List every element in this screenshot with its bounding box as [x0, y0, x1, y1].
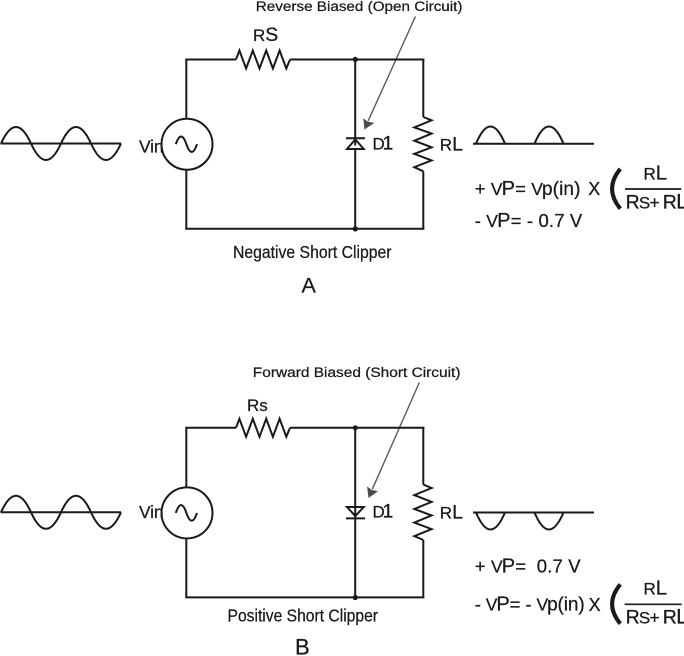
- junction: bottom node (B): [353, 595, 358, 600]
- svg-text:Positive Short Clipper: Positive Short Clipper: [228, 605, 379, 625]
- wire: right branch lower (B): [422, 540, 424, 598]
- svg-text:RL: RL: [644, 162, 668, 185]
- resistor RL (A): [414, 117, 431, 171]
- wire: diode branch lower (A): [354, 149, 356, 229]
- wire: bottom wire (B): [185, 596, 424, 598]
- svg-text:Forward Biased (Short Circuit): Forward Biased (Short Circuit): [253, 365, 461, 380]
- annotation arrow to D1 (B): [367, 382, 419, 498]
- resistor Rs (B): [236, 419, 290, 437]
- wire: left branch top (B): [185, 428, 187, 488]
- svg-text:- VP= - 0.7 V: - VP= - 0.7 V: [475, 210, 583, 232]
- wire: right branch upper (B): [422, 427, 424, 485]
- wire: left branch bottom (A): [185, 170, 187, 229]
- wire: left branch bottom (B): [185, 538, 187, 597]
- output waveform (B): [473, 513, 594, 530]
- wire: top-left segment (A): [185, 59, 236, 61]
- svg-text:+ VP= 0.7 V: + VP= 0.7 V: [475, 555, 582, 577]
- annotation arrow to D1 (A): [363, 17, 415, 130]
- svg-text:RS: RS: [253, 24, 278, 46]
- voltage source Vin (A): [162, 119, 213, 170]
- wire: top-right segment (B): [290, 427, 424, 429]
- svg-text:X: X: [588, 179, 600, 199]
- svg-text:RL: RL: [440, 502, 463, 524]
- wire: right branch upper (A): [422, 59, 424, 118]
- junction: top node (A): [353, 57, 358, 62]
- wire: top-right segment (A): [290, 59, 424, 61]
- wire: top-left segment (B): [185, 427, 236, 429]
- svg-text:RS+ RL: RS+ RL: [626, 605, 684, 629]
- diode D1 (A): [346, 138, 365, 149]
- svg-text:Vin: Vin: [139, 502, 163, 522]
- wire: diode branch lower (B): [354, 518, 356, 597]
- svg-text:D1: D1: [373, 133, 394, 155]
- svg-text:- VP= - Vp(in): - VP= - Vp(in): [475, 594, 585, 616]
- svg-text:RS+ RL: RS+ RL: [626, 190, 684, 214]
- wire: right branch lower (A): [422, 171, 424, 229]
- svg-text:Vin: Vin: [139, 137, 163, 157]
- svg-text:X: X: [589, 595, 601, 615]
- svg-text:Reverse Biased (Open Circuit): Reverse Biased (Open Circuit): [256, 0, 463, 14]
- svg-text:RL: RL: [440, 133, 463, 155]
- svg-text:Rs: Rs: [247, 396, 268, 415]
- resistor RS: [236, 51, 290, 69]
- formula: -VP = -Vp(in) x RL/(Rs+RL) (B): [475, 577, 684, 629]
- wire: diode branch upper (A): [354, 60, 356, 146]
- wire: bottom wire (A): [185, 228, 424, 230]
- output waveform (A): [473, 126, 594, 143]
- formula: +VP = Vp(in) x RL/(Rs+RL) (A): [475, 162, 684, 214]
- input waveform (A): [1, 127, 122, 160]
- diode D1 (B): [346, 507, 365, 518]
- junction: top node (B): [353, 425, 358, 430]
- resistor RL (B): [414, 485, 431, 540]
- wire: left branch top (A): [185, 60, 187, 120]
- svg-text:B: B: [295, 634, 310, 656]
- svg-text:RL: RL: [644, 577, 668, 600]
- svg-text:A: A: [302, 274, 317, 298]
- junction: bottom node (A): [353, 226, 358, 231]
- svg-text:+ VP= Vp(in): + VP= Vp(in): [475, 178, 581, 200]
- svg-text:Negative Short Clipper: Negative Short Clipper: [233, 242, 392, 262]
- voltage source Vin (B): [162, 487, 213, 538]
- input waveform (B): [1, 496, 122, 529]
- wire: diode branch upper (B): [354, 428, 356, 519]
- svg-text:D1: D1: [373, 501, 394, 523]
